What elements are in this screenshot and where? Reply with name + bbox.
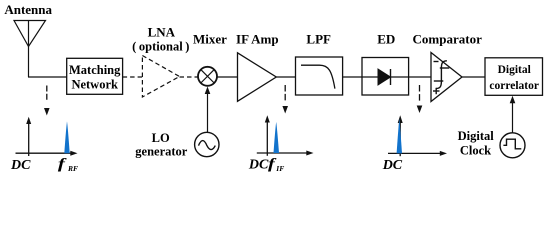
- svg-text:Network: Network: [71, 77, 118, 91]
- block Digital correlator: [485, 58, 543, 96]
- wire antenna to matching network: [28, 76, 67, 78]
- plus input: [433, 90, 440, 92]
- svg-text:IF: IF: [275, 164, 284, 173]
- arrow clock to digital correlator: [510, 96, 516, 133]
- svg-text:f: f: [58, 156, 67, 172]
- hysteresis symbol: [436, 61, 447, 89]
- wire IF amp to LPF: [276, 76, 295, 78]
- amplifier LNA (optional, dashed): [142, 56, 179, 98]
- dashed arrow to RF spectrum: [44, 86, 50, 116]
- RF spectrum axes: [16, 117, 78, 156]
- wire mixer to IF amp: [217, 76, 238, 78]
- block LPF: [296, 57, 343, 95]
- dashed wire matching to LNA: [123, 76, 143, 78]
- svg-text:Digital: Digital: [458, 129, 495, 143]
- IF spectrum axes: [257, 115, 314, 156]
- mixer: [198, 67, 217, 86]
- dashed arrow to IF spectrum: [282, 85, 288, 114]
- comparator: [431, 53, 462, 102]
- DC spectrum axes: [388, 115, 447, 156]
- IF spectrum peak: [274, 122, 280, 153]
- arrow LO to mixer: [205, 87, 211, 133]
- svg-text:ED: ED: [377, 31, 395, 46]
- f_IF label: [268, 155, 277, 171]
- svg-text:Comparator: Comparator: [413, 31, 483, 46]
- f_RF label: [58, 156, 67, 172]
- antenna: [14, 21, 46, 78]
- svg-text:Clock: Clock: [460, 143, 491, 157]
- dashed wire LNA to mixer: [180, 76, 199, 78]
- svg-text:LPF: LPF: [306, 31, 331, 46]
- svg-text:Matching: Matching: [69, 63, 121, 77]
- block Matching Network: [67, 58, 123, 94]
- minus input: [434, 61, 439, 63]
- svg-text:LO: LO: [152, 131, 170, 145]
- svg-text:Mixer: Mixer: [193, 31, 227, 46]
- svg-text:LNA: LNA: [148, 24, 176, 39]
- wire comparator to digital correlator: [462, 76, 485, 78]
- DC spectrum peak: [397, 119, 402, 154]
- wire LPF to ED: [343, 76, 362, 78]
- wire ED to comparator: [409, 76, 431, 78]
- digital clock (square-wave source): [500, 133, 525, 158]
- svg-text:RF: RF: [67, 164, 78, 173]
- svg-text:Digital: Digital: [498, 64, 531, 76]
- svg-text:DC: DC: [10, 158, 31, 173]
- digital clock label: [458, 129, 495, 158]
- LO generator (sine source): [195, 132, 219, 156]
- LNA label: [132, 24, 189, 53]
- svg-text:correlator: correlator: [489, 80, 539, 92]
- amplifier IF Amp: [238, 53, 277, 102]
- svg-text:IF Amp: IF Amp: [236, 31, 279, 46]
- svg-text:Antenna: Antenna: [4, 2, 52, 17]
- svg-text:(optional): (optional): [132, 39, 189, 53]
- svg-text:generator: generator: [135, 145, 188, 159]
- block ED (envelope detector diode): [362, 58, 409, 96]
- RF spectrum peak: [64, 121, 69, 153]
- LO generator label: [135, 131, 188, 159]
- svg-text:DC: DC: [382, 158, 403, 173]
- svg-text:DC: DC: [248, 158, 269, 173]
- dashed arrow to DC spectrum: [417, 85, 423, 113]
